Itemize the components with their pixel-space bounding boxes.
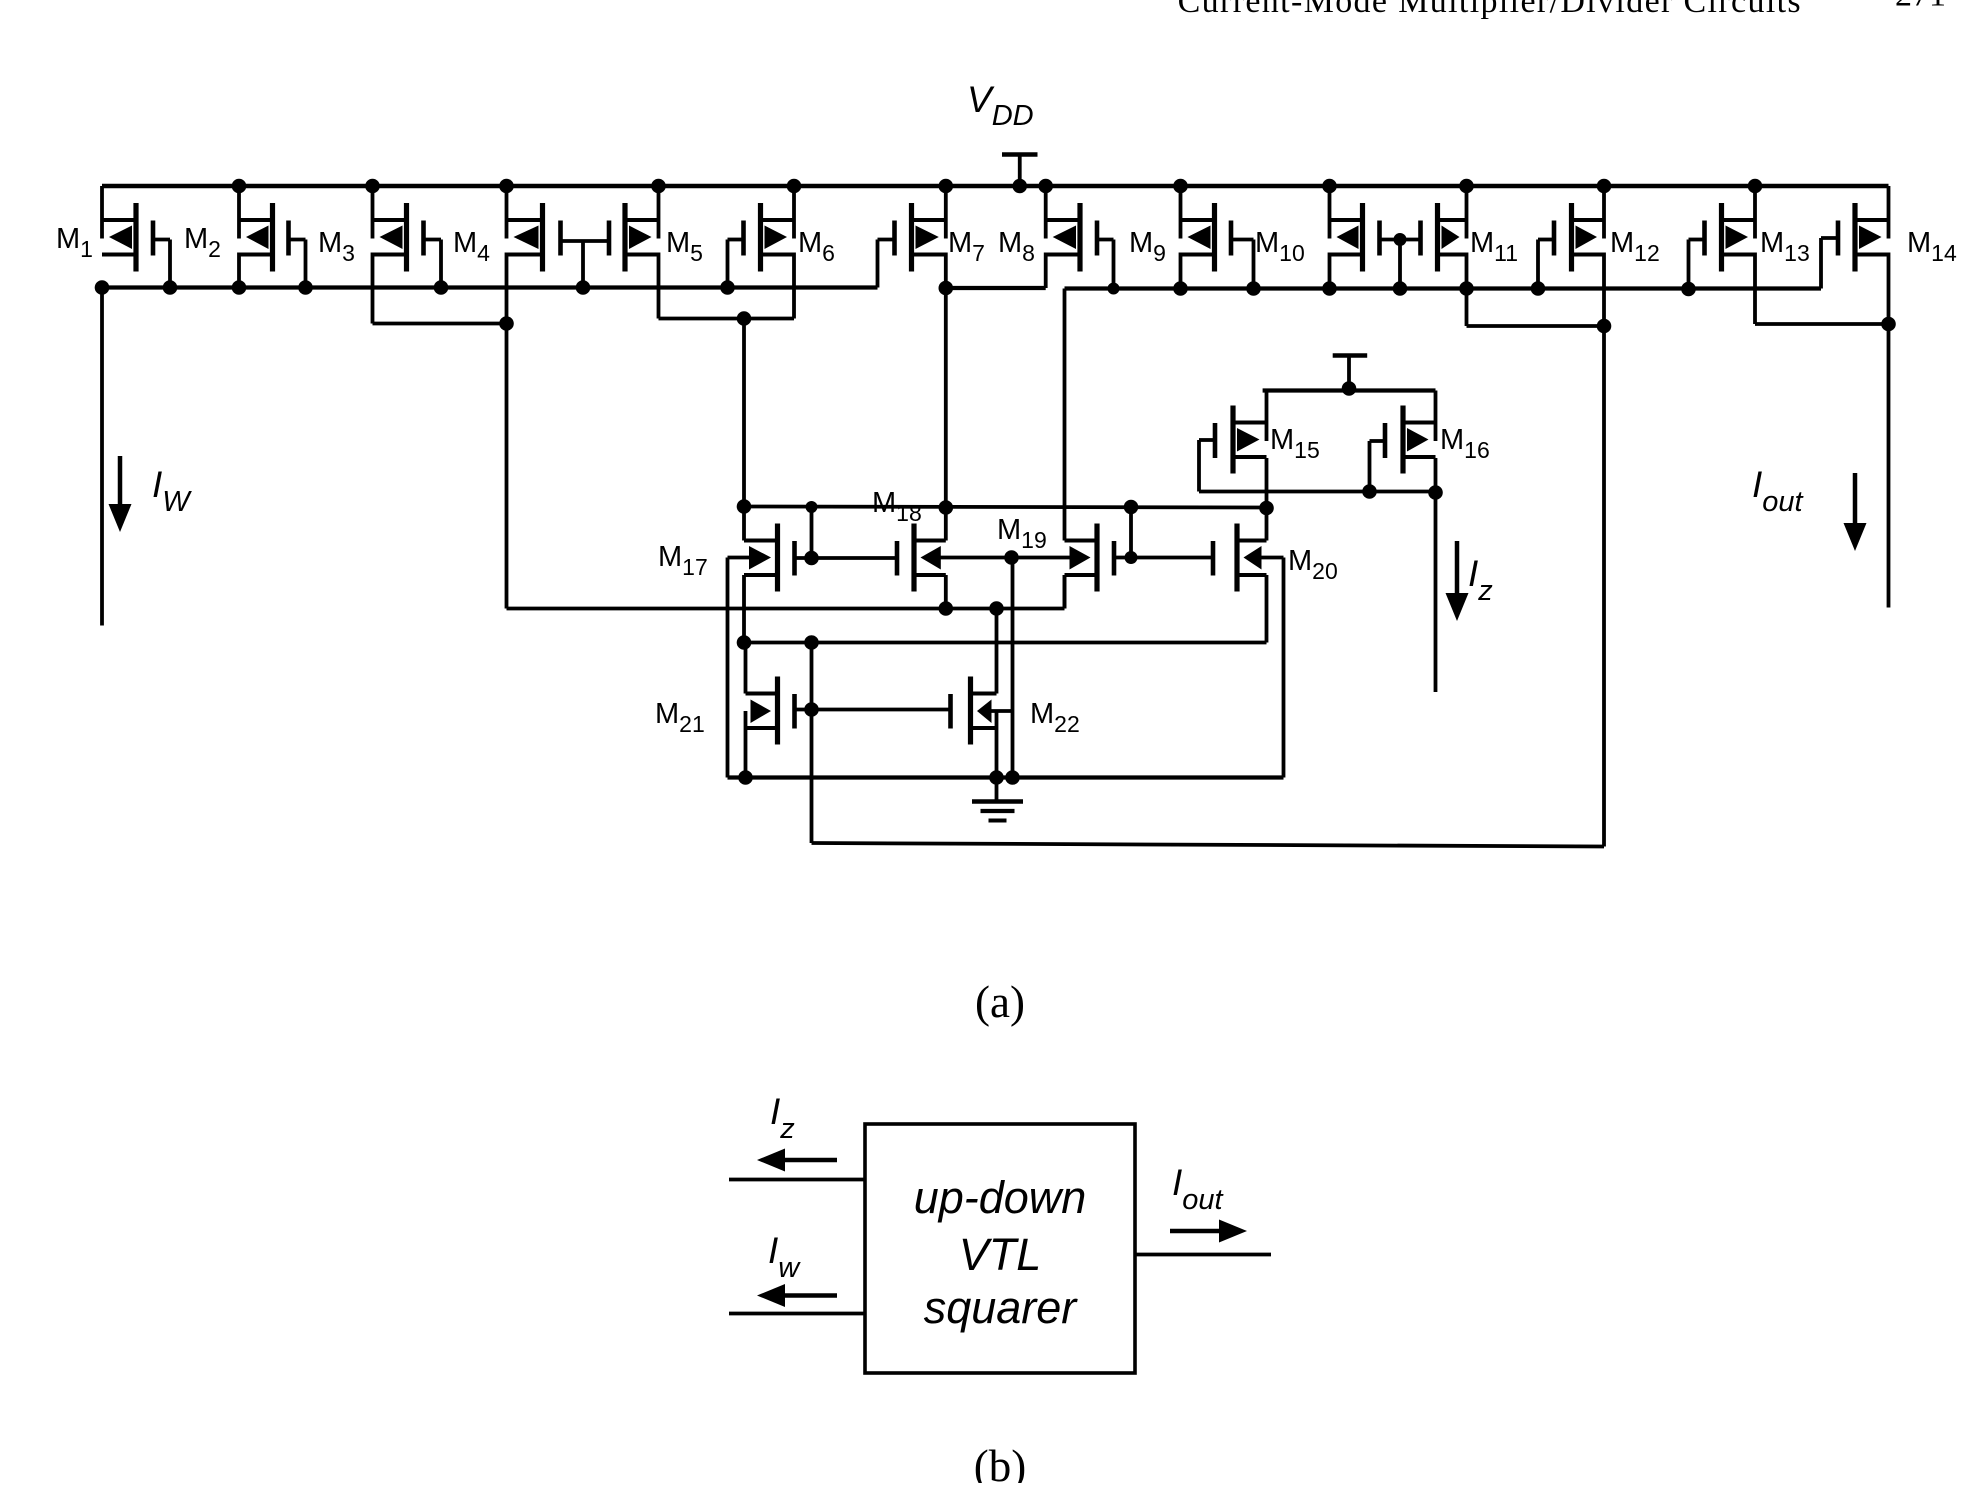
junction dot M22 drain on source row [989, 601, 1004, 616]
wire M2 gate down to diode bus [304, 240, 308, 288]
squarer drain row (M17/M18/M15/M20 drains) [744, 507, 1267, 508]
IW input arrow [772, 1293, 837, 1298]
transistor M3 source lead from rail [371, 186, 375, 239]
transistor M10 source lead from rail [1328, 186, 1332, 239]
transistor M6 channel bar [758, 203, 763, 272]
transistor M21 source arrow [751, 700, 772, 724]
wire M11 drain to M12 drain [1467, 324, 1605, 328]
junction dot M3 source at VDD rail [365, 179, 380, 194]
wire M8 gate down to mirror bus [1112, 240, 1116, 289]
transistor M8 gate stub [1097, 238, 1114, 242]
IZ input wire of block [729, 1178, 865, 1182]
transistor M3 source (top) contact [373, 218, 407, 222]
wire M1 gate down to diode bus [168, 240, 172, 288]
wire shared gate link M10-M11 [1380, 238, 1421, 242]
IW current arrow [118, 456, 123, 508]
transistor M9 gate stub [1231, 238, 1254, 242]
junction dot M2 source at VDD rail [232, 179, 247, 194]
wire IZ output branch [1434, 493, 1438, 693]
svg-text:Current-Mode Multiplier/Divide: Current-Mode Multiplier/Divider Circuits [1178, 0, 1802, 20]
wire M18 source down to source row [944, 575, 948, 609]
junction dot M12 source at VDD rail [1597, 179, 1612, 194]
wire M13 drain to M14 drain [1755, 322, 1889, 326]
wire M18/M19 bulk row [940, 556, 1070, 560]
transistor M12 channel bar [1569, 203, 1574, 272]
transistor M14 drain (bottom) contact [1855, 253, 1889, 257]
junction dot VDD stem on rail [1012, 179, 1027, 194]
junction dot M21/M22 gate tap on source row [804, 635, 819, 650]
wire M6 drain down (crosses bus) [792, 253, 796, 319]
junction dot M5/M6 drain node [737, 311, 752, 326]
wire M17 bulk row [728, 556, 750, 560]
transistor M2 source lead from rail [237, 186, 241, 239]
transistor M3 drain (bottom) contact [373, 253, 407, 257]
junction dot M8 gate on mirror bus [1108, 283, 1120, 295]
IZ current arrow [1455, 541, 1460, 595]
transistor M11 source arrow [1442, 226, 1460, 250]
junction dot M3/M4 drain node [499, 316, 514, 331]
junction dot M16 gate on gate-drain row [1362, 484, 1377, 499]
transistor M1 gate bar [151, 221, 156, 256]
transistor M13 channel bar [1719, 203, 1724, 272]
transistor M5 drain (bottom) contact [625, 253, 659, 257]
junction dot M21/M22 gate tap on gate link [804, 702, 819, 717]
junction dot M13 source at VDD rail [1748, 179, 1763, 194]
wire M21/M22 gate tap down [810, 643, 814, 710]
transistor M12 source arrow [1576, 226, 1598, 250]
mirror gate bus (M8-M14) [1065, 286, 1822, 290]
transistor M21 gate stub [795, 708, 812, 712]
transistor M3 source arrow [380, 226, 403, 250]
transistor M5 gate bar [607, 221, 612, 256]
transistor M10 drain (bottom) contact [1330, 253, 1363, 257]
wire mirror bus left end down to M19 drain [1063, 289, 1067, 541]
junction dot M9 source at VDD rail [1173, 179, 1188, 194]
transistor M13 source lead from rail [1753, 186, 1757, 239]
transistor M17 drain (top) contact [744, 539, 778, 543]
junction dot M10 drain on mirror bus [1322, 281, 1337, 296]
wire M17 gate tap down from drain row [810, 507, 814, 558]
junction dot M3 gate on diode bus [434, 280, 449, 295]
wire M13 drain down (crosses bus) [1753, 253, 1757, 325]
transistor M1 source (top) contact [102, 218, 136, 222]
junction dot M21 source on ground rail [738, 770, 753, 785]
transistor M19 gate stub [1114, 556, 1131, 560]
transistor M20 gate bar [1211, 541, 1216, 576]
transistor M12 source (top) contact [1572, 218, 1605, 222]
wire M22 source down to ground rail [995, 711, 999, 778]
ground stem [995, 778, 999, 802]
svg-text:(b): (b) [974, 1441, 1026, 1483]
junction dot M17 gate tap on drain row [806, 501, 818, 513]
transistor M16 source arrow [1407, 428, 1429, 452]
transistor M2 source (top) contact [239, 218, 273, 222]
transistor M2 channel bar [270, 203, 275, 272]
wire bulk row tap down to ground rail [1011, 558, 1015, 778]
transistor M21 gate bar [792, 694, 797, 729]
wire bottom feedback up to M21/M22 gate link [810, 710, 814, 844]
transistor M9 source lead from rail [1179, 186, 1183, 239]
wire M16 gate down to gate-drain row [1368, 441, 1372, 492]
junction dot M10/M11 gate link tap [1394, 233, 1407, 246]
transistor M10 source (top) contact [1330, 218, 1363, 222]
transistor M7 drain (bottom) contact [912, 253, 946, 257]
transistor M14 source lead from rail [1887, 186, 1891, 239]
wire M19/M20 gate link [1131, 556, 1213, 560]
transistor M10 source arrow [1337, 226, 1359, 250]
junction dot M17 gate / M18 gate node [804, 551, 819, 566]
transistor M1 gate stub [153, 238, 170, 242]
transistor M13 gate stub [1689, 238, 1705, 242]
junction dot M2 gate on diode bus [298, 280, 313, 295]
transistor M2 source arrow [246, 226, 269, 250]
wire M16 drain down to IZ node [1434, 458, 1438, 493]
ground bar 1 [972, 799, 1023, 803]
transistor M17 source (bottom) contact [744, 573, 778, 577]
transistor M22 channel bar [968, 677, 973, 745]
transistor M21 source (bottom) contact [746, 726, 778, 730]
junction dot M11 drain on mirror bus [1459, 281, 1474, 296]
transistor M17 channel bar [775, 524, 780, 592]
transistor M7 channel bar [909, 203, 914, 272]
junction dot M17 drain node [737, 499, 752, 514]
transistor M1 source arrow [109, 226, 132, 250]
transistor M18 drain (top) contact [914, 539, 946, 543]
wire M21/M22 gate link [812, 708, 949, 712]
transistor M9 source (top) contact [1181, 218, 1215, 222]
junction dot M4 source at VDD rail [499, 179, 514, 194]
wire M5/M6 drain node down to M17 drain [742, 319, 746, 507]
transistor M14 gate stub [1821, 236, 1838, 240]
wire M20 source down [1265, 575, 1269, 643]
transistor M13 drain (bottom) contact [1722, 253, 1756, 257]
Iout output wire of block [1135, 1253, 1271, 1257]
wire M17/M18 gate link [812, 556, 896, 560]
transistor M4 source lead from rail [505, 186, 509, 239]
transistor M8 drain (bottom) contact [1046, 253, 1080, 257]
transistor M15 source lead from local rail [1265, 391, 1269, 442]
transistor M18 source (bottom) contact [914, 573, 946, 577]
wire M21 source down to ground rail [744, 711, 748, 778]
wire M18 drain lead [944, 508, 948, 541]
wire M22 bulk stub [991, 709, 1013, 713]
M15/M16 source rail [1263, 388, 1436, 392]
wire M19 source down to source row corner [1063, 575, 1067, 609]
wire M10/M11 gate tap down to mirror bus [1398, 240, 1402, 289]
ground bar 2 [981, 809, 1015, 813]
VDD stem wire [1018, 155, 1022, 187]
transistor M4 source arrow [514, 226, 539, 250]
transistor M6 source lead from rail [792, 186, 796, 239]
wire M15 gate down [1197, 440, 1201, 492]
transistor M10 channel bar [1360, 203, 1365, 272]
wire shared gate link M4-M5 [561, 239, 610, 243]
svg-text:271: 271 [1895, 0, 1946, 14]
transistor M5 source arrow [629, 226, 652, 250]
transistor M8 source lead from rail [1044, 186, 1048, 239]
wire M6 gate down to diode bus [726, 240, 730, 288]
transistor M19 source (bottom) contact [1065, 573, 1098, 577]
junction dot M10/M11 gate tap on mirror bus [1393, 281, 1408, 296]
transistor M2 drain (bottom) contact [239, 253, 273, 257]
transistor M12 drain (bottom) contact [1572, 253, 1605, 257]
wire IW output branch [100, 288, 104, 626]
junction dot bulk row tap [1004, 550, 1019, 565]
Iout current arrow [1853, 473, 1858, 523]
diode-connected gate bus (M1-M7) [102, 285, 878, 289]
transistor M22 source arrow [977, 700, 992, 724]
local VDD stem wire [1347, 356, 1351, 389]
transistor M2 gate bar [286, 221, 291, 256]
transistor M18 source arrow [921, 546, 941, 570]
junction dot bulk tap on ground rail [1005, 770, 1020, 785]
transistor M18 channel bar [911, 524, 916, 592]
junction dot M10 source at VDD rail [1322, 179, 1337, 194]
transistor M13 source arrow [1726, 226, 1749, 250]
bottom feedback wire to M21/M22 gates [812, 843, 1605, 847]
transistor M11 channel bar [1435, 203, 1440, 272]
wire M3 gate down to diode bus [439, 240, 443, 288]
junction dot M2 drain on diode bus [232, 280, 247, 295]
transistor M10 gate bar [1377, 221, 1382, 256]
junction dot M1 drain / IW branch [95, 280, 110, 295]
wire M10 drain down to mirror bus [1328, 253, 1332, 289]
wire M4/M5 gate tap down to diode bus [581, 241, 585, 288]
junction dot M6 source at VDD rail [787, 179, 802, 194]
junction dot M9 drain on mirror bus [1173, 281, 1188, 296]
junction dot M12 gate on mirror bus [1531, 281, 1546, 296]
IZ input arrow [772, 1158, 837, 1163]
transistor M15 source arrow [1237, 428, 1260, 452]
transistor M9 drain (bottom) contact [1181, 253, 1215, 257]
transistor M3 gate bar [421, 221, 426, 256]
transistor M7 source arrow [916, 226, 939, 250]
transistor M20 drain (top) contact [1237, 539, 1267, 543]
transistor M6 source (top) contact [761, 218, 795, 222]
transistor M11 source lead from rail [1465, 186, 1469, 239]
wire M11 drain down through mirror bus [1465, 253, 1469, 327]
junction dot M11 source at VDD rail [1459, 179, 1474, 194]
transistor M6 gate bar [741, 221, 746, 256]
squarer source row wire [507, 607, 1065, 611]
transistor M9 source arrow [1188, 226, 1211, 250]
junction dot M19 gate tap on drain row [1124, 500, 1139, 515]
wire M9 drain down to mirror bus [1179, 253, 1183, 289]
transistor M17 gate stub [795, 556, 812, 560]
transistor M15 channel bar [1230, 406, 1235, 474]
block up-down VTL squarer box [865, 1124, 1135, 1373]
wire M5 drain down (crosses bus) [657, 253, 661, 319]
wire M17 drain lead [742, 507, 746, 541]
transistor M12 gate bar [1552, 221, 1557, 256]
transistor M6 source arrow [765, 226, 788, 250]
junction dot M18 drain node [939, 500, 954, 515]
transistor M19 gate bar [1112, 541, 1117, 576]
junction dot M18 source on source row [939, 601, 954, 616]
wire M19 gate tap up to drain row [1129, 507, 1133, 558]
svg-text:squarer: squarer [924, 1282, 1079, 1333]
transistor M6 drain (bottom) contact [761, 253, 795, 257]
wire M20 bulk down to ground rail end [1282, 558, 1286, 778]
transistor M19 channel bar [1094, 524, 1099, 592]
wire M22 drain lead from source row [995, 609, 999, 694]
transistor M14 source arrow [1859, 226, 1882, 250]
wire M17 source down to M21 drain [742, 575, 746, 643]
transistor M4 drain (bottom) contact [507, 253, 543, 257]
transistor M11 drain (bottom) contact [1438, 253, 1467, 257]
junction dot M5 source at VDD rail [651, 179, 666, 194]
transistor M22 source (bottom) contact [971, 726, 997, 730]
wire M14 drain down to Iout node [1887, 253, 1891, 325]
M7-M8 drain bus [946, 286, 1046, 290]
M21/M22 ground rail [728, 775, 1284, 779]
transistor M13 source (top) contact [1722, 218, 1756, 222]
transistor M14 source (top) contact [1855, 218, 1889, 222]
transistor M19 source arrow [1070, 546, 1091, 570]
wire M2 drain down to diode bus [237, 253, 241, 288]
transistor M1 drain (bottom) contact [102, 253, 136, 257]
transistor M6 gate stub [728, 238, 744, 242]
junction dot M8 source at VDD rail [1038, 179, 1053, 194]
transistor M7 source (top) contact [912, 218, 946, 222]
transistor M2 gate stub [289, 238, 306, 242]
wire M20 drain lead from drain row [1265, 508, 1269, 541]
wire M12 gate down to mirror bus [1536, 240, 1540, 289]
junction dot M16 drain / IZ node [1428, 485, 1443, 500]
VDD terminal T-bar [1002, 152, 1038, 157]
junction dot M15 drain on squarer drain row [1259, 501, 1274, 516]
transistor M12 source lead from rail [1602, 186, 1606, 239]
junction dot M11/M12 drain node [1597, 319, 1612, 334]
wire M15 drain down (crosses row) to squarer drain row [1265, 458, 1269, 508]
wire M5 drain to M6 drain [659, 317, 795, 321]
junction dot M7 drain / M7-M8 drain bus [939, 281, 954, 296]
junction dot M19 gate tap [1125, 551, 1138, 564]
junction dot M22 source on ground rail [989, 770, 1004, 785]
transistor M16 source lead from local rail [1434, 391, 1438, 442]
wire M7 drain down [944, 253, 948, 289]
transistor M3 gate stub [424, 238, 442, 242]
transistor M21 channel bar [775, 677, 780, 745]
VDD supply rail wire [102, 184, 1889, 188]
transistor M16 gate bar [1383, 423, 1388, 458]
junction dot M1 gate on diode bus [163, 280, 178, 295]
wire M14 gate down to mirror bus right end [1819, 238, 1823, 289]
transistor M21 drain (top) contact [746, 692, 778, 696]
transistor M20 source arrow [1244, 546, 1262, 570]
svg-text:up-down: up-down [914, 1172, 1087, 1223]
transistor M8 channel bar [1077, 203, 1082, 272]
transistor M4 source (top) contact [507, 218, 543, 222]
wire M7 gate down to diode bus end [876, 240, 880, 288]
wire M3 drain down (crosses bus) [371, 253, 375, 324]
transistor M20 channel bar [1234, 524, 1239, 592]
transistor M18 gate bar [895, 541, 900, 576]
wire M12 drain down (crosses bus) [1602, 253, 1606, 327]
wire M20 bulk row [1261, 556, 1284, 560]
transistor M1 channel bar [133, 203, 138, 272]
junction dot M21 drain node on source row [737, 635, 752, 650]
junction dot M4/M5 gate tap on diode bus [576, 280, 591, 295]
ground bar 3 [989, 819, 1007, 823]
transistor M14 gate bar [1836, 221, 1841, 256]
transistor M20 source (bottom) contact [1237, 573, 1267, 577]
wire source row right end up to M19 source [1063, 575, 1067, 609]
M15/M16 gate-drain row [1199, 490, 1436, 494]
wire M4 drain down (crosses bus) [505, 253, 509, 324]
IW input wire of block [729, 1312, 865, 1316]
transistor M5 source (top) contact [625, 218, 659, 222]
local VDD terminal T-bar above M15/M16 [1333, 353, 1368, 358]
transistor M7 gate stub [878, 238, 895, 242]
wire M13 gate down to mirror bus [1687, 240, 1691, 290]
transistor M1 source lead from rail [100, 186, 104, 239]
transistor M8 gate bar [1095, 221, 1100, 256]
transistor M3 channel bar [404, 203, 409, 272]
wire M21 drain lead from source row [744, 643, 748, 694]
wire M20 source row to M21 drain node [744, 641, 1267, 645]
transistor M16 gate stub [1370, 439, 1386, 443]
transistor M7 source lead from rail [944, 186, 948, 239]
transistor M16 channel bar [1400, 406, 1405, 474]
transistor M5 source lead from rail [657, 186, 661, 239]
wire M8 drain down to M7-M8 drain bus [1044, 253, 1048, 289]
wire M9 gate down to mirror bus [1252, 240, 1256, 289]
junction dot M13 gate on mirror bus [1681, 282, 1696, 297]
transistor M22 drain (top) contact [971, 692, 997, 696]
junction dot M6 gate on diode bus [720, 280, 735, 295]
junction dot local VDD stem on M15/M16 rail [1342, 381, 1357, 396]
transistor M17 gate bar [792, 541, 797, 576]
junction dot M13/M14 drain node (Iout) [1881, 317, 1896, 332]
svg-text:(a): (a) [975, 977, 1025, 1027]
transistor M14 channel bar [1852, 203, 1857, 272]
Iout output arrow [1170, 1229, 1232, 1234]
transistor M9 gate bar [1229, 221, 1234, 256]
transistor M4 channel bar [540, 203, 545, 272]
transistor M13 gate bar [1702, 221, 1707, 256]
transistor M8 source arrow [1053, 226, 1076, 250]
transistor M5 channel bar [622, 203, 627, 272]
transistor M15 source (top) contact [1233, 421, 1267, 425]
transistor M9 channel bar [1212, 203, 1217, 272]
wire Iout output branch [1887, 324, 1891, 608]
transistor M7 gate bar [892, 221, 897, 256]
svg-text:VTL: VTL [959, 1229, 1042, 1280]
junction dot M9 gate on mirror bus [1246, 281, 1261, 296]
transistor M15 drain (bottom) contact [1233, 455, 1267, 459]
wire M17 bulk down to source rail [726, 558, 730, 778]
transistor M12 gate stub [1538, 238, 1554, 242]
wire M7 drain node down to M18 drain [944, 288, 948, 508]
transistor M8 source (top) contact [1046, 218, 1080, 222]
transistor M16 drain (bottom) contact [1403, 455, 1436, 459]
transistor M4 gate bar [558, 221, 563, 256]
transistor M15 gate stub [1199, 438, 1215, 442]
junction dot M7 source at VDD rail [939, 179, 954, 194]
transistor M16 source (top) contact [1403, 421, 1436, 425]
transistor M11 gate bar [1418, 221, 1423, 256]
transistor M11 source (top) contact [1438, 218, 1467, 222]
transistor M17 source arrow [749, 546, 771, 570]
transistor M15 gate bar [1213, 423, 1218, 458]
wire M3/M4 drain node down to squarer core [505, 324, 509, 609]
transistor M22 gate bar [948, 694, 953, 729]
wire M11/M12 drain node down to bottom feedback wire [1602, 326, 1606, 847]
transistor M19 drain (top) contact [1065, 539, 1098, 543]
wire M3 drain to M4 drain [373, 322, 507, 326]
